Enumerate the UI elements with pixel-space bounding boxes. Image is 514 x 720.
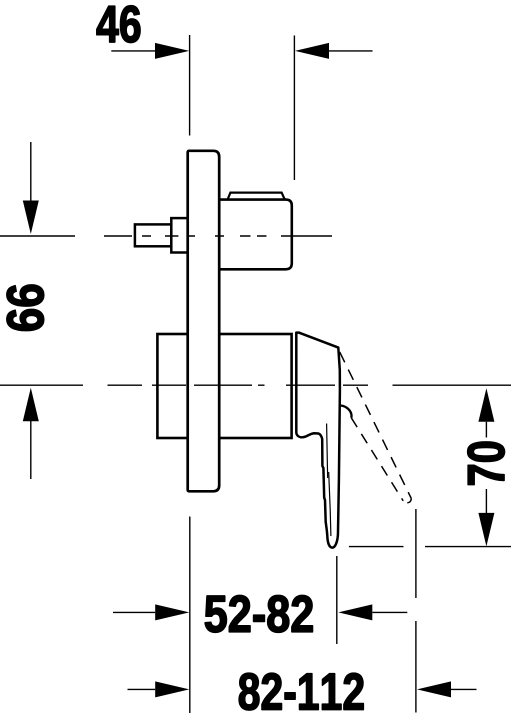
dim 70 arrow down xyxy=(478,513,494,547)
dim 46 tail left xyxy=(111,50,155,52)
valve body cylinder xyxy=(157,334,291,438)
lever crease line 1 xyxy=(327,424,328,479)
dim 82-112 tail right xyxy=(451,688,477,690)
dim 70 label xyxy=(468,442,505,485)
bottom extension line left (plate) xyxy=(189,517,191,714)
dim 46 tail right xyxy=(329,50,373,52)
dim 66 line upper xyxy=(30,142,32,201)
dim 70 line segments xyxy=(485,422,487,513)
handle pivot knuckle arc xyxy=(340,406,352,418)
dim 70 reference line bottom xyxy=(349,546,511,548)
cartridge cap top xyxy=(227,193,285,201)
bottom extension line right (phantom tip) xyxy=(415,509,417,713)
spindle flange xyxy=(171,218,189,252)
dim 46 extension line right xyxy=(293,36,295,181)
dim 66 line lower xyxy=(30,421,32,479)
dim 82-112 arrow right xyxy=(417,681,451,697)
dim 70 arrow up xyxy=(478,388,494,422)
dim 52-82 tail right xyxy=(372,611,407,613)
dim 52-82 arrow right xyxy=(338,604,372,620)
dim 66 arrow up xyxy=(23,388,39,422)
dim 82-112 label xyxy=(239,673,363,710)
dim 52-82 label xyxy=(205,596,313,633)
phantom handle tip dashed arc xyxy=(403,499,411,503)
cartridge box xyxy=(219,200,292,270)
dim 46 arrow right xyxy=(295,43,329,59)
dim 46 arrow left xyxy=(155,43,189,59)
dim 46 extension line left xyxy=(189,35,191,136)
spindle xyxy=(135,224,171,246)
dim 66 label xyxy=(7,285,44,331)
centerline upper (spindle axis) xyxy=(0,235,332,237)
dim 52-82 arrow left xyxy=(155,604,189,620)
phantom handle lower dashed line xyxy=(351,418,403,501)
phantom handle upper dashed line xyxy=(340,352,412,499)
dim 46 label xyxy=(97,6,140,43)
bottom extension line middle (handle tip) xyxy=(336,556,338,644)
handle base and lever xyxy=(296,333,340,548)
wall plate xyxy=(188,151,220,492)
lever crease line 2 xyxy=(329,472,331,536)
centerline lower (body axis) xyxy=(0,384,511,386)
dim 66 arrow down xyxy=(23,201,39,235)
dim 52-82 tail left xyxy=(113,611,155,613)
dim 82-112 tail left xyxy=(128,688,156,690)
dim 82-112 arrow left xyxy=(155,681,189,697)
